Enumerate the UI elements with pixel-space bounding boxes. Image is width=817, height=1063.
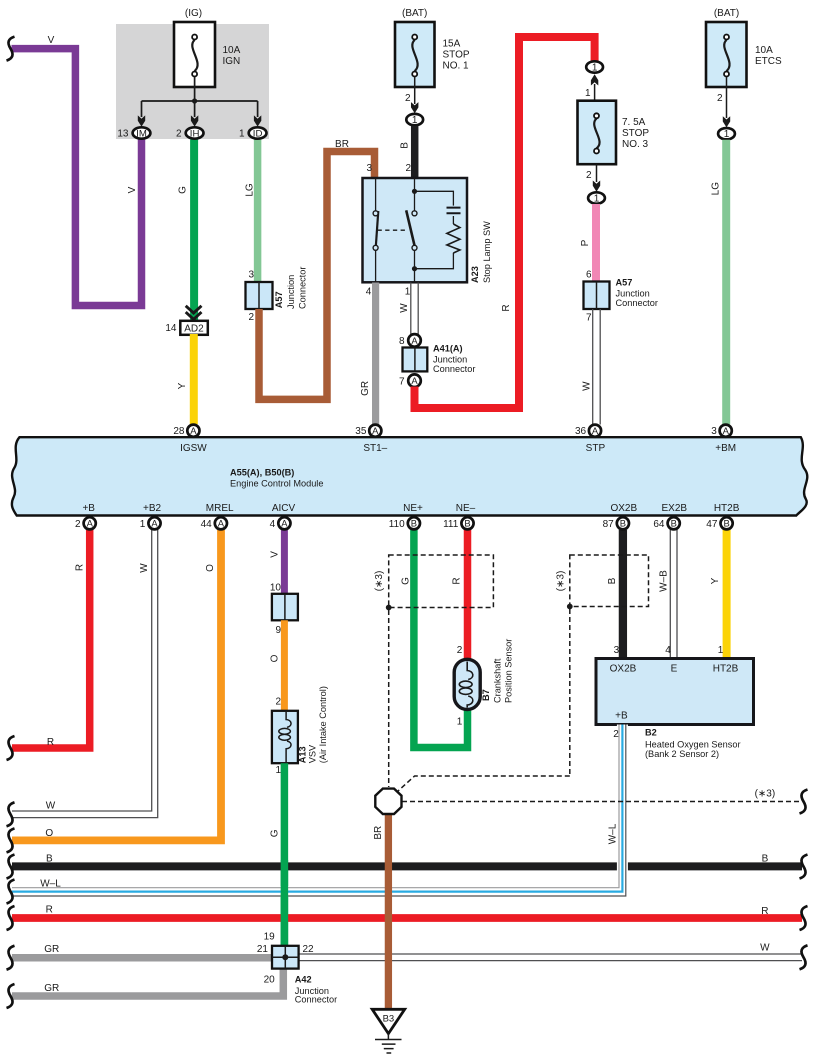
svg-text:B: B xyxy=(671,518,677,529)
svg-text:1: 1 xyxy=(457,716,463,727)
svg-text:V: V xyxy=(48,35,55,46)
svg-text:6: 6 xyxy=(586,270,592,281)
svg-text:7. 5A: 7. 5A xyxy=(622,117,646,128)
svg-text:BR: BR xyxy=(335,139,349,150)
svg-text:87: 87 xyxy=(603,519,615,530)
svg-text:A: A xyxy=(723,425,730,436)
svg-text:OX2B: OX2B xyxy=(610,503,637,514)
svg-text:STOP: STOP xyxy=(443,50,470,61)
svg-text:B2: B2 xyxy=(645,727,657,737)
svg-text:2: 2 xyxy=(248,312,254,323)
svg-text:36: 36 xyxy=(575,426,587,437)
svg-text:B: B xyxy=(399,142,410,149)
svg-text:(BAT): (BAT) xyxy=(402,8,427,19)
svg-text:A: A xyxy=(218,518,225,529)
svg-text:(∗3): (∗3) xyxy=(374,571,385,592)
svg-text:+B: +B xyxy=(82,503,95,514)
svg-text:B7: B7 xyxy=(481,689,491,701)
svg-text:3: 3 xyxy=(614,645,620,656)
svg-text:2: 2 xyxy=(586,170,592,181)
svg-text:B: B xyxy=(411,518,417,529)
svg-text:R: R xyxy=(47,737,54,748)
svg-text:GR: GR xyxy=(360,381,371,396)
svg-text:A55(A), B50(B): A55(A), B50(B) xyxy=(230,468,294,478)
svg-text:Y: Y xyxy=(710,577,721,584)
svg-text:IM: IM xyxy=(136,128,147,139)
svg-text:A: A xyxy=(372,425,379,436)
svg-text:B: B xyxy=(607,577,618,584)
svg-text:Junction: Junction xyxy=(433,355,467,365)
svg-text:NE+: NE+ xyxy=(403,503,423,514)
svg-text:Stop Lamp SW: Stop Lamp SW xyxy=(482,221,492,283)
svg-text:BR: BR xyxy=(373,826,384,840)
svg-text:(Bank 2 Sensor 2): (Bank 2 Sensor 2) xyxy=(645,749,719,759)
svg-text:2: 2 xyxy=(613,729,619,740)
svg-text:1: 1 xyxy=(405,287,411,298)
svg-text:A: A xyxy=(190,425,197,436)
svg-text:W: W xyxy=(760,943,770,954)
svg-text:111: 111 xyxy=(443,519,459,530)
svg-text:V: V xyxy=(270,551,281,558)
svg-text:2: 2 xyxy=(176,129,182,140)
svg-text:GR: GR xyxy=(44,944,59,955)
svg-text:1: 1 xyxy=(724,129,730,140)
svg-text:+BM: +BM xyxy=(715,443,736,454)
svg-text:R: R xyxy=(451,577,462,584)
svg-text:(∗3): (∗3) xyxy=(556,571,567,592)
svg-text:G: G xyxy=(400,577,411,585)
svg-text:O: O xyxy=(205,564,216,572)
svg-text:Position Sensor: Position Sensor xyxy=(503,639,513,703)
svg-text:B3: B3 xyxy=(383,1014,395,1025)
svg-text:22: 22 xyxy=(303,944,315,955)
svg-text:A: A xyxy=(151,518,158,529)
svg-text:21: 21 xyxy=(257,944,269,955)
svg-text:7: 7 xyxy=(399,376,405,387)
svg-text:10: 10 xyxy=(270,582,282,593)
svg-text:4: 4 xyxy=(270,519,276,530)
svg-text:ETCS: ETCS xyxy=(755,56,782,67)
svg-text:19: 19 xyxy=(264,931,276,942)
svg-text:R: R xyxy=(501,304,512,311)
svg-text:W–L: W–L xyxy=(608,823,619,844)
svg-text:Engine Control Module: Engine Control Module xyxy=(230,479,323,489)
svg-text:R: R xyxy=(761,906,768,917)
svg-text:ST1–: ST1– xyxy=(363,443,387,454)
svg-text:Connector: Connector xyxy=(295,995,337,1005)
svg-text:A42: A42 xyxy=(295,974,312,984)
svg-text:2: 2 xyxy=(75,519,81,530)
svg-text:Crankshaft: Crankshaft xyxy=(492,658,502,703)
svg-text:9: 9 xyxy=(275,625,281,636)
svg-text:R: R xyxy=(46,905,53,916)
svg-text:4: 4 xyxy=(665,645,671,656)
svg-text:W: W xyxy=(581,381,592,391)
svg-text:G: G xyxy=(178,186,189,194)
svg-text:LG: LG xyxy=(710,182,721,196)
svg-text:1: 1 xyxy=(275,765,281,776)
svg-text:W: W xyxy=(139,563,150,573)
svg-text:2: 2 xyxy=(275,696,281,707)
svg-text:Heated Oxygen Sensor: Heated Oxygen Sensor xyxy=(645,739,741,749)
svg-text:3: 3 xyxy=(248,270,254,281)
svg-text:LG: LG xyxy=(245,183,256,197)
svg-text:W: W xyxy=(399,303,410,313)
svg-text:A: A xyxy=(592,425,599,436)
svg-text:2: 2 xyxy=(457,645,463,656)
svg-text:W: W xyxy=(46,801,56,812)
svg-text:3: 3 xyxy=(366,163,372,174)
svg-text:HT2B: HT2B xyxy=(714,503,740,514)
svg-text:B: B xyxy=(464,518,470,529)
svg-text:A: A xyxy=(281,518,288,529)
svg-text:OX2B: OX2B xyxy=(610,664,637,675)
svg-text:28: 28 xyxy=(173,426,185,437)
svg-text:NO. 3: NO. 3 xyxy=(622,139,649,150)
svg-text:13: 13 xyxy=(117,129,129,140)
svg-text:1: 1 xyxy=(239,129,245,140)
svg-text:B: B xyxy=(762,853,769,864)
svg-text:AD2: AD2 xyxy=(184,324,204,335)
svg-text:4: 4 xyxy=(366,287,372,298)
svg-text:7: 7 xyxy=(586,313,592,324)
svg-text:1: 1 xyxy=(412,115,418,126)
svg-text:Connector: Connector xyxy=(616,298,658,308)
svg-text:B: B xyxy=(723,518,729,529)
svg-text:B: B xyxy=(46,853,53,864)
svg-text:A23: A23 xyxy=(470,266,480,283)
svg-text:O: O xyxy=(270,654,281,662)
svg-text:B: B xyxy=(620,518,626,529)
svg-text:R: R xyxy=(75,564,86,571)
svg-text:+B: +B xyxy=(615,711,628,722)
svg-text:(∗3): (∗3) xyxy=(755,789,776,800)
svg-text:110: 110 xyxy=(389,519,405,530)
svg-text:(BAT): (BAT) xyxy=(714,8,739,19)
svg-text:VSV: VSV xyxy=(308,744,318,763)
svg-text:EX2B: EX2B xyxy=(662,503,688,514)
svg-text:A: A xyxy=(87,518,94,529)
svg-text:3: 3 xyxy=(711,426,717,437)
svg-text:A57: A57 xyxy=(616,278,633,288)
svg-text:STOP: STOP xyxy=(622,128,649,139)
svg-text:P: P xyxy=(580,239,591,246)
svg-text:IGN: IGN xyxy=(223,56,241,67)
svg-text:8: 8 xyxy=(399,336,405,347)
svg-text:NE–: NE– xyxy=(456,503,476,514)
svg-text:Connector: Connector xyxy=(433,364,475,374)
svg-text:(IG): (IG) xyxy=(185,8,202,19)
svg-text:Junction: Junction xyxy=(286,275,296,309)
svg-text:1: 1 xyxy=(594,193,600,204)
svg-text:Connector: Connector xyxy=(298,267,308,309)
svg-text:Y: Y xyxy=(177,382,188,389)
svg-text:W–B: W–B xyxy=(659,570,670,592)
svg-text:(Air Intake Control): (Air Intake Control) xyxy=(318,686,328,763)
svg-text:GR: GR xyxy=(44,983,59,994)
svg-text:G: G xyxy=(269,829,280,837)
svg-text:NO. 1: NO. 1 xyxy=(443,61,470,72)
svg-text:1: 1 xyxy=(140,519,146,530)
svg-text:Junction: Junction xyxy=(616,289,650,299)
svg-text:15A: 15A xyxy=(443,39,461,50)
svg-text:1: 1 xyxy=(718,645,724,656)
svg-text:A: A xyxy=(411,375,418,386)
svg-text:64: 64 xyxy=(653,519,665,530)
svg-text:W–L: W–L xyxy=(40,879,61,890)
svg-text:1: 1 xyxy=(585,88,591,99)
svg-text:47: 47 xyxy=(706,519,718,530)
svg-text:44: 44 xyxy=(201,519,213,530)
svg-text:HT2B: HT2B xyxy=(713,664,739,675)
svg-text:IH: IH xyxy=(190,128,200,139)
svg-text:2: 2 xyxy=(717,93,723,104)
svg-text:35: 35 xyxy=(355,426,367,437)
svg-text:A41(A): A41(A) xyxy=(433,344,463,354)
svg-text:AICV: AICV xyxy=(272,503,296,514)
svg-text:STP: STP xyxy=(586,443,606,454)
svg-text:ID: ID xyxy=(253,128,263,139)
svg-text:1: 1 xyxy=(592,62,598,73)
svg-text:V: V xyxy=(127,186,138,193)
svg-text:2: 2 xyxy=(405,163,411,174)
svg-text:10A: 10A xyxy=(223,45,241,56)
svg-text:IGSW: IGSW xyxy=(180,443,207,454)
svg-text:MREL: MREL xyxy=(206,503,234,514)
svg-text:A13: A13 xyxy=(298,746,308,763)
svg-text:20: 20 xyxy=(264,974,276,985)
svg-text:2: 2 xyxy=(405,93,411,104)
svg-text:A57: A57 xyxy=(274,291,284,308)
svg-text:14: 14 xyxy=(165,323,177,334)
svg-text:10A: 10A xyxy=(755,45,773,56)
svg-text:A: A xyxy=(411,335,418,346)
svg-text:O: O xyxy=(45,828,53,839)
svg-text:+B2: +B2 xyxy=(143,503,162,514)
svg-text:E: E xyxy=(671,664,678,675)
